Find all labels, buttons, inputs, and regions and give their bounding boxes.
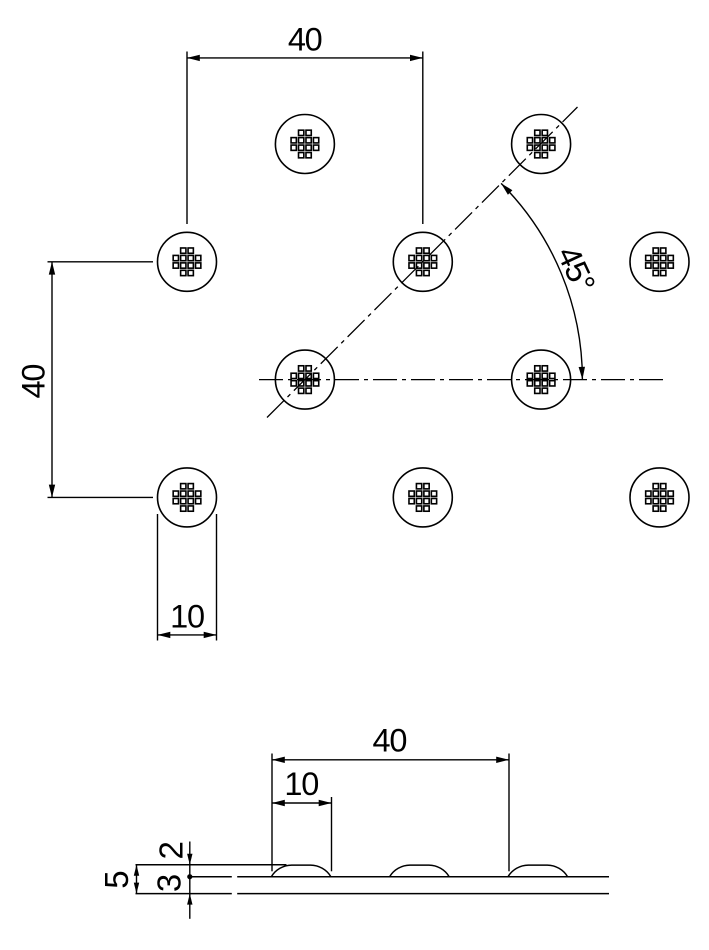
section: dome 2 [390, 865, 450, 877]
svg-text:5: 5 [98, 870, 135, 888]
dimension 5: down arrowhead [134, 883, 139, 894]
section dimension 10: left arrowhead [272, 800, 285, 806]
angle 45: upper arrowhead [501, 183, 512, 194]
section dimension 40: extension line left [271, 754, 273, 872]
stud circle D3 [630, 468, 689, 527]
dimension 3: up arrowhead [187, 894, 192, 905]
stud circle C2 [512, 350, 571, 409]
center line horizontal through row C [259, 379, 663, 381]
section dimension 10: extension line right [331, 797, 333, 871]
svg-text:10: 10 [284, 766, 318, 802]
stud circle A2 [512, 115, 571, 174]
dimension 40 left: top arrowhead [49, 262, 55, 275]
dimension 40 left: extension line bottom [48, 496, 154, 498]
section: dome top reference line [136, 864, 287, 866]
stud circle D2 [393, 468, 452, 527]
dimension 5: dimension line [136, 865, 138, 894]
center line diagonal 45 deg [267, 107, 578, 418]
dimension 40 top: extension line left [186, 52, 188, 225]
dimension 40 left: dimension line [51, 262, 53, 498]
dimension 10 plan: dimension line [158, 634, 217, 636]
dimension 2: down arrowhead [187, 854, 192, 865]
stud circle B3 [630, 232, 689, 291]
section dimension 10: dimension line [272, 802, 332, 804]
svg-text:2: 2 [152, 841, 189, 859]
svg-text:40: 40 [15, 365, 51, 399]
dimension 40 left: extension line top [48, 261, 154, 263]
stud circle D1 [158, 468, 217, 527]
angle 45: lower arrowhead [579, 367, 585, 380]
dimension 40 top: dimension line [187, 57, 423, 59]
svg-text:40: 40 [288, 22, 322, 58]
svg-text:10: 10 [170, 598, 204, 634]
svg-text:40: 40 [373, 723, 407, 759]
section: dome 3 [508, 865, 568, 877]
section dimension 40: left arrowhead [272, 757, 285, 763]
section dimension 10: right arrowhead [319, 800, 332, 806]
dimension 10 plan: extension line left [157, 514, 159, 641]
section: plate bottom line [136, 893, 232, 895]
svg-text:3: 3 [151, 874, 188, 892]
svg-text:45°: 45° [550, 241, 602, 298]
angle 45: arc [501, 183, 582, 379]
section dimension 40: right arrowhead [496, 757, 509, 763]
dimension 10 plan: right arrowhead [204, 632, 217, 638]
section dimension 40: extension line right [508, 754, 510, 872]
dimension point dot [187, 874, 192, 879]
section: dome 1 [271, 865, 331, 877]
dimension 40 top: extension line right [422, 52, 424, 225]
section dimension 40: dimension line [272, 759, 509, 761]
dimension 40 top: right arrowhead [410, 55, 423, 61]
stud circle B2 [393, 232, 452, 291]
section: plate top surface line [191, 876, 232, 878]
dimension 5: up arrowhead [134, 865, 139, 876]
stud circle B1 [158, 232, 217, 291]
dimension 10 plan: left arrowhead [158, 632, 171, 638]
stud circle A1 [275, 115, 334, 174]
dimension 2/3: vertical witness line [189, 842, 191, 919]
dimension 40 top: left arrowhead [187, 55, 200, 61]
stud circle C1 [275, 350, 334, 409]
dimension 10 plan: extension line right [216, 514, 218, 641]
dimension 40 left: bottom arrowhead [49, 485, 55, 498]
